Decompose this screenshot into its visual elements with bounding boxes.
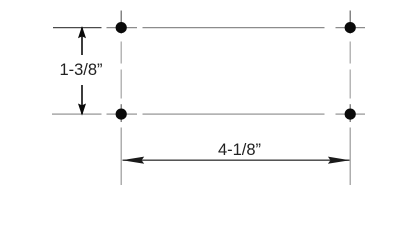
node hole A top-left: [116, 22, 127, 33]
wire bottom long line: [143, 113, 325, 115]
wire top long line: [143, 27, 325, 29]
wire bottom extension line left: [52, 113, 102, 115]
wire right vertical center line: [349, 11, 351, 186]
wire bottom center-mark through hole C: [107, 113, 138, 115]
svg-text:1-3/8”: 1-3/8”: [59, 61, 102, 79]
arrowhead up: [79, 28, 85, 37]
wire top extension line left: [53, 27, 102, 29]
wire vertical dimension shaft lower: [81, 85, 83, 114]
wire bottom center-mark through hole D: [336, 113, 366, 115]
wire vertical dimension shaft upper: [81, 28, 83, 55]
wire left vertical center line: [120, 11, 122, 186]
node hole B top-right: [345, 22, 356, 33]
svg-text:4-1/8”: 4-1/8”: [218, 141, 261, 159]
arrowhead left: [122, 157, 144, 164]
wire horizontal dimension shaft: [123, 159, 350, 161]
node hole C bottom-left: [116, 109, 127, 120]
arrowhead right: [328, 157, 350, 164]
wire top center-mark through hole B: [336, 27, 366, 29]
arrowhead down: [79, 105, 85, 114]
node hole D bottom-right: [345, 109, 356, 120]
wire top center-mark through hole A: [107, 27, 138, 29]
